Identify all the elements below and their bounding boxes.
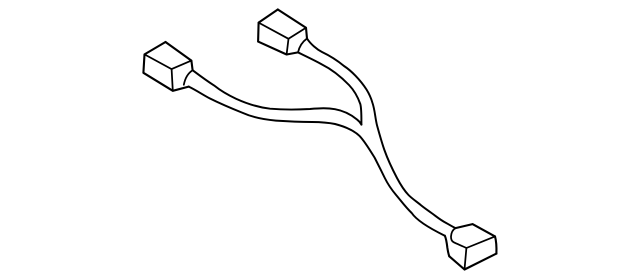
connector J2 front vertical edge <box>287 39 289 55</box>
connector J1 front vertical edge <box>172 69 173 91</box>
connector J3 boot arc and top-face front edge <box>451 228 466 248</box>
connector J3 left edge <box>445 236 450 257</box>
wire W1 bottom edge merging into trunk left edge (J1 to J3 kink) <box>189 87 445 236</box>
wire W2 left edge (J2 to junction V) <box>298 52 361 124</box>
connector J2 top-face inner edges <box>259 23 306 39</box>
connector J2 boot arc <box>298 39 307 53</box>
connector J1 top-face inner edges <box>145 54 192 69</box>
connector J3 bottom edges <box>449 254 496 270</box>
connector J1 boot arc <box>184 70 193 85</box>
connector J3 top-face inner edge <box>466 236 495 248</box>
connector J1 (upper-left) body outline <box>143 42 188 91</box>
connector J2 top-right edge and corner edge <box>278 10 307 39</box>
wire W2 right edge merging into trunk right edge (J2 to J3 boot) <box>307 39 456 229</box>
wire W1 top edge (J1 to junction V) <box>193 70 362 124</box>
connector J3 front vertical edge <box>465 248 467 270</box>
connector J3 (lower-right) top edges <box>456 224 496 236</box>
connector J1 top-right edge and corner edge <box>166 42 193 70</box>
connector J3 right edge <box>495 236 496 253</box>
connector J2 (top-middle) body outline <box>258 10 298 55</box>
